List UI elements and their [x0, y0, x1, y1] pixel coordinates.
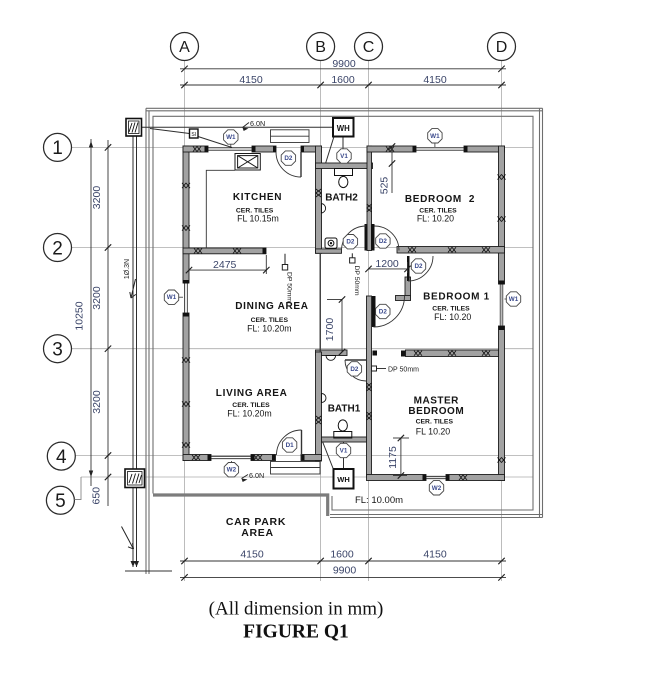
hatch living south wall: [192, 455, 200, 460]
svg-text:SI: SI: [191, 132, 196, 138]
window jambs bedroom2: [413, 146, 417, 152]
svg-text:2: 2: [52, 238, 63, 259]
grid line 2: [72, 247, 534, 249]
tag W1 bedroom2: [434, 141, 436, 147]
dim arrows 10250: [89, 141, 93, 148]
dim ticks 1175: [398, 435, 404, 441]
window kitchen north: [208, 147, 252, 149]
svg-text:6.0N: 6.0N: [249, 471, 264, 480]
hatch kitchen east wall: [316, 189, 321, 197]
hatch bedroom divider wall: [408, 247, 416, 252]
west wall upper segment: [183, 146, 189, 283]
note 6.0N bottom: [241, 471, 265, 483]
svg-text:FL: 10.20: FL: 10.20: [417, 214, 454, 224]
door leaf bedroom1: [407, 256, 410, 281]
tag W2 living: [230, 461, 232, 466]
svg-text:3200: 3200: [91, 390, 103, 414]
door jamb master east: [401, 351, 406, 357]
svg-text:W1: W1: [167, 294, 177, 301]
bubble 3: [44, 335, 72, 363]
svg-text:A: A: [179, 39, 190, 56]
hatch kitchen south wall: [194, 248, 202, 253]
dim line 525: [391, 146, 393, 193]
svg-text:DP 50mm: DP 50mm: [388, 367, 419, 374]
dim ticks 2475: [186, 267, 192, 273]
svg-text:W1: W1: [226, 134, 236, 141]
vent pipe line bath2: [342, 137, 344, 168]
svg-text:FIGURE Q1: FIGURE Q1: [243, 622, 349, 643]
north wall bedroom2 seg2: [464, 146, 505, 152]
svg-text:D2: D2: [379, 238, 388, 245]
door jamb kitchen south wall end: [263, 248, 267, 254]
svg-text:2475: 2475: [213, 259, 237, 271]
grid line B: [320, 61, 322, 582]
boundary outer double line right: [539, 108, 541, 517]
svg-text:1600: 1600: [331, 74, 355, 86]
hatch bedroom1/master wall: [414, 351, 422, 356]
window jambs bedroom1: [499, 281, 505, 285]
boundary outer double line top: [146, 107, 543, 109]
svg-text:D2: D2: [284, 155, 293, 162]
car park edge band: [153, 495, 328, 516]
svg-text:FL: 10.20: FL: 10.20: [434, 312, 471, 322]
grid line D: [501, 61, 503, 582]
tag W1 bedroom1: [505, 298, 509, 300]
dining/hall partition line: [319, 253, 321, 352]
downpipe DP hall: [350, 253, 360, 296]
door leaf bath2: [365, 224, 368, 251]
vent pipe line bath1: [343, 442, 345, 469]
grid line 3: [72, 348, 534, 350]
window jambs living: [208, 455, 212, 461]
kitchen east wall (grid B): [316, 146, 322, 253]
north wall kitchen seg1: [183, 146, 208, 152]
svg-text:D2: D2: [414, 263, 423, 270]
svg-text:D2: D2: [350, 366, 359, 373]
svg-text:B: B: [315, 39, 326, 56]
dim line 1175: [400, 438, 402, 476]
waste pipe WH1 to wall: [326, 137, 335, 164]
bath2 east wall (grid C): [367, 146, 372, 251]
bath2 north wall: [316, 163, 373, 169]
door arc kitchen: [276, 152, 301, 177]
door arc bath1: [345, 360, 366, 381]
window dining west: [184, 283, 186, 313]
tag W1 kitchen: [230, 141, 232, 147]
window living south: [211, 455, 251, 457]
drain double line left: [132, 136, 134, 567]
waste pipe MH2 to SI: [150, 129, 190, 134]
bedroom1 west wall: [405, 277, 411, 300]
door leaf bedroom2: [371, 224, 375, 251]
hall wall stub: [396, 296, 411, 301]
tag V1 bath2: [337, 149, 351, 163]
svg-text:FL: 10.20m: FL: 10.20m: [247, 323, 292, 333]
svg-text:WH: WH: [337, 475, 350, 484]
leader arrow bottom left: [122, 527, 134, 550]
svg-text:AREA: AREA: [241, 527, 274, 539]
south wall master seg1: [367, 475, 427, 481]
svg-text:W2: W2: [227, 467, 237, 474]
window master south: [426, 475, 446, 477]
svg-text:5: 5: [55, 491, 66, 512]
svg-text:3: 3: [52, 340, 63, 361]
bedroom2/bedroom1 divider wall: [397, 247, 505, 254]
dim line top segments: [180, 84, 506, 86]
svg-text:3200: 3200: [91, 186, 103, 210]
WC bath2: [335, 169, 353, 188]
kitchen stove box: [235, 154, 260, 171]
basin bath1 west: [322, 394, 327, 403]
svg-text:4150: 4150: [239, 74, 263, 86]
window jambs dining: [183, 280, 189, 284]
svg-text:1175: 1175: [387, 446, 399, 469]
drain end tick: [125, 570, 172, 572]
tag D1 living: [282, 438, 296, 452]
svg-text:D2: D2: [379, 309, 388, 316]
svg-text:BATH1: BATH1: [328, 404, 361, 415]
hatch bath2 east wall: [367, 204, 372, 212]
drain line top: [142, 126, 334, 128]
boundary bottom double line porch: [330, 514, 543, 516]
window jambs kitchen: [205, 146, 209, 152]
door arc hall: [374, 296, 405, 327]
water heater WH2: [334, 469, 354, 489]
svg-text:4150: 4150: [240, 549, 264, 561]
gully SI: [190, 129, 199, 138]
svg-text:FL 10.15m: FL 10.15m: [237, 214, 279, 224]
bath1 west wall (grid B): [316, 352, 322, 461]
svg-text:4: 4: [56, 447, 67, 468]
hatch bath1 west wall: [316, 416, 321, 424]
dim ticks left: [105, 144, 111, 150]
dim ticks 1700: [339, 296, 345, 302]
svg-text:D1: D1: [286, 442, 295, 449]
hatch west wall: [182, 183, 190, 188]
bubble 4: [47, 442, 75, 470]
tag D2 bedroom2: [376, 234, 390, 248]
waste pipe bath1 to WH2: [322, 439, 334, 470]
hatch master south wall: [459, 475, 467, 480]
grid line 5: [81, 476, 533, 478]
dim line kitchen 2475: [189, 269, 266, 271]
floor trap bath2: [325, 238, 337, 249]
svg-text:1600: 1600: [330, 549, 354, 561]
svg-text:DINING AREA: DINING AREA: [235, 301, 308, 312]
downpipe DP dining: [282, 254, 292, 303]
window jambs master: [423, 475, 427, 481]
north wall bedroom2 seg1: [367, 146, 416, 152]
window bedroom1 east: [499, 284, 501, 326]
dim line bottom segments: [180, 560, 506, 562]
bath2 south wall: [316, 249, 342, 253]
west wall lower segment: [183, 313, 189, 461]
south wall living seg1: [183, 455, 211, 461]
svg-text:FL: 10.20m: FL: 10.20m: [227, 408, 272, 418]
svg-text:DP 50mm: DP 50mm: [353, 266, 360, 296]
bath1 south wall: [322, 437, 367, 442]
svg-text:W1: W1: [430, 133, 440, 140]
svg-text:LIVING AREA: LIVING AREA: [216, 388, 288, 399]
tag D2 bath1: [347, 362, 361, 376]
dim line 1700: [341, 300, 343, 353]
hatch kitchen north wall: [193, 146, 201, 151]
bubble 1: [44, 133, 72, 161]
waste pipe SI to wall: [198, 137, 232, 148]
bubble B: [307, 33, 335, 61]
south wall master seg2: [446, 475, 505, 481]
flow arrow 10.3N: [130, 279, 136, 298]
svg-text:3200: 3200: [91, 286, 103, 310]
grid line A: [184, 61, 186, 582]
south wall living seg3: [301, 455, 322, 461]
svg-text:9900: 9900: [332, 58, 356, 70]
water heater WH1: [333, 118, 354, 137]
hatch east wall: [498, 174, 506, 179]
bath1 east wall: [367, 296, 372, 478]
svg-text:BEDROOM: BEDROOM: [408, 406, 464, 417]
svg-text:FL: 10.00m: FL: 10.00m: [355, 495, 403, 506]
dim ticks top: [181, 66, 187, 72]
svg-text:9900: 9900: [333, 564, 357, 576]
bubble C: [355, 33, 383, 61]
dim ticks 525: [389, 143, 395, 149]
basin bath1 north: [326, 356, 336, 361]
svg-text:W2: W2: [432, 485, 442, 492]
hatch bedroom2 north wall: [386, 146, 394, 151]
svg-text:6.0N: 6.0N: [250, 119, 265, 128]
svg-text:(All dimension in mm): (All dimension in mm): [209, 599, 384, 620]
door leaf hall: [372, 296, 376, 327]
hatch bath1 east wall: [366, 383, 371, 391]
svg-text:10250: 10250: [74, 301, 86, 330]
basin bath2 west: [322, 204, 326, 214]
svg-text:1Ø.3N: 1Ø.3N: [124, 259, 131, 279]
svg-text:4150: 4150: [423, 549, 447, 561]
door jamb master west: [373, 351, 378, 356]
note 6.0N top: [242, 119, 266, 132]
manhole MH4: [125, 469, 145, 488]
svg-text:BEDROOM 2: BEDROOM 2: [405, 194, 475, 205]
door arc bath2: [342, 226, 367, 251]
east wall lower segment: [499, 326, 505, 481]
door arc bedroom1: [408, 256, 433, 281]
dim line left segments: [107, 140, 109, 506]
svg-text:WH: WH: [337, 124, 350, 133]
window bedroom2 north: [416, 147, 464, 149]
tag D2 kitchen: [281, 151, 295, 165]
svg-text:BATH2: BATH2: [325, 193, 358, 204]
dim line bottom 9900: [180, 576, 506, 578]
bubble D: [488, 33, 516, 61]
kitchen south wall: [183, 248, 266, 254]
svg-text:DP 50mm: DP 50mm: [286, 272, 293, 302]
svg-text:1700: 1700: [324, 318, 336, 342]
svg-text:FL 10.20: FL 10.20: [416, 427, 451, 437]
living door step: [271, 462, 321, 475]
svg-text:V1: V1: [340, 448, 348, 455]
dim line left 10250: [90, 139, 92, 486]
bubble 5: [46, 486, 74, 514]
tag W1 dining: [176, 296, 183, 298]
tag V1 bath1: [336, 443, 350, 457]
south wall living seg2: [251, 455, 276, 461]
east wall upper segment: [499, 146, 505, 284]
boundary outer double line left: [145, 108, 147, 574]
svg-text:650: 650: [91, 487, 103, 505]
kitchen counter: [206, 170, 235, 248]
manhole MH2: [126, 119, 142, 137]
grid line 4: [75, 455, 533, 457]
boundary inner line: [153, 116, 533, 510]
svg-text:BEDROOM 1: BEDROOM 1: [423, 291, 490, 302]
svg-text:D: D: [496, 39, 508, 56]
dim ticks bottom: [181, 558, 187, 564]
svg-text:525: 525: [379, 177, 391, 195]
svg-text:V1: V1: [340, 153, 348, 160]
door arc living D1: [277, 430, 302, 455]
tag W2 master: [436, 481, 438, 484]
kitchen door step: [271, 130, 310, 143]
door arc bedroom2: [375, 226, 400, 251]
downpipe DP master: [372, 366, 420, 374]
north wall kitchen seg3: [301, 146, 322, 152]
svg-text:C: C: [363, 39, 375, 56]
svg-text:W1: W1: [509, 296, 519, 303]
svg-text:KITCHEN: KITCHEN: [233, 192, 282, 203]
tag D2 bath2: [343, 235, 357, 249]
grid line C: [368, 61, 370, 582]
door jambs living south door: [272, 455, 275, 461]
dim ticks 1200: [365, 266, 371, 272]
drain end arrowheads: [131, 561, 140, 567]
WC bath1: [334, 420, 352, 438]
svg-text:1: 1: [52, 138, 63, 159]
dim line 1200: [369, 268, 408, 270]
bubble 2: [44, 234, 72, 262]
bath1 north wall: [316, 350, 348, 356]
grid line 1: [72, 146, 534, 148]
svg-text:D2: D2: [346, 239, 355, 246]
tag D2 bedroom1: [411, 259, 425, 273]
north wall kitchen seg2: [252, 146, 276, 152]
tag D2 hall: [376, 304, 390, 318]
svg-text:4150: 4150: [423, 74, 447, 86]
bubble 5 leader: [75, 477, 82, 500]
svg-text:CER. TILES: CER. TILES: [416, 418, 454, 425]
dim line top 9900: [180, 68, 506, 70]
door jambs kitchen north door: [273, 146, 276, 152]
bubble A: [171, 33, 199, 61]
svg-text:1200: 1200: [375, 258, 399, 270]
bedroom1/master divider wall: [406, 350, 499, 357]
